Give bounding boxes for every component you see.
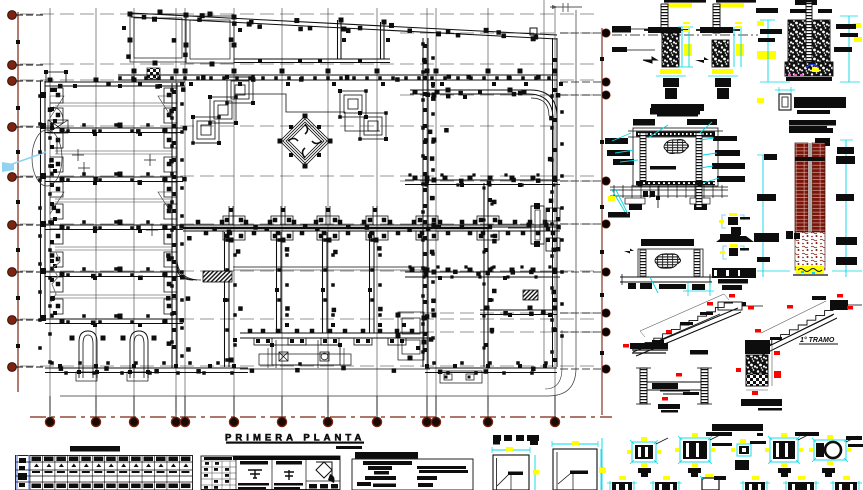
wall central band y=228 [183,216,560,240]
corridor curve [177,258,201,280]
wall notch upper right [546,208,560,221]
column section 1 [627,437,668,477]
table footing schedule [201,456,340,490]
footing detail 1 [612,0,706,117]
room top-right frame [410,28,557,180]
stair section left [630,294,763,356]
graph detail right [552,441,605,490]
wall notch lower right [546,238,560,251]
svg-text:1° TRAMO: 1° TRAMO [800,336,835,344]
footing detail 3 large [756,0,862,82]
dimension line left of sections [599,438,606,490]
grid axis line right (red) [601,28,603,415]
brick wall detail [754,126,862,277]
wall central south y=335 [240,329,428,345]
wall fin interior [508,203,549,247]
room upper-left B [186,12,242,67]
checker door block [147,68,160,79]
column section 4 [765,432,819,477]
stair U-shape left [70,331,106,381]
wall left exterior [40,81,57,321]
column labels block [712,268,756,290]
grid bubbles bottom [45,396,559,427]
wall bottom right section [425,364,557,373]
arc door left wall [32,130,62,186]
measure crosses [51,142,158,236]
beam connection detail [636,368,712,413]
stair left red marks [623,294,754,348]
nested-square spiral cluster right [338,89,388,141]
stair foundation detail [736,340,782,411]
survey mark top [550,3,582,12]
cluster bathroom walls [396,312,427,361]
grid bubbles left [8,11,44,372]
wall horizontal y=180 right [405,176,560,188]
porch stub [44,70,68,82]
wall top band extension [234,18,390,64]
room hatch block [523,290,538,300]
notes block [352,452,473,490]
stirrup mini detail B [720,234,749,259]
wall bottom left wing [45,364,248,373]
door X brace [48,120,68,133]
wall corridor vertical x=180 [172,83,177,368]
junction blocks [48,15,561,374]
tank detail frame [605,108,745,187]
room upper-left A [122,10,189,66]
stirrup mini detail A [716,213,754,242]
wall right exterior x=558 [553,38,558,367]
column section 5 [809,435,863,477]
nested-square spiral cluster left [191,75,255,145]
column sections row 2 [607,476,862,490]
stair U-shape right [121,331,157,381]
column section 2 [675,432,732,477]
wall horizontal upper y=75 [118,69,563,87]
table columns schedule [16,446,193,490]
grid line x=544 [543,0,545,368]
column sections title [712,424,763,436]
grid axis line left (red) [17,12,19,392]
wall top slanted [131,13,557,41]
pilaster bumps left wing [50,88,177,314]
walls left wing horizontal [45,123,183,328]
terrace boundary line [240,368,430,370]
footing detail 3 column stub [757,87,846,126]
wall horizontal y=312 [480,306,558,318]
break line squiggle [51,252,60,302]
courtyard boundary steps [235,94,380,131]
wall vertical x=430 center [423,38,437,367]
diamond column center [278,114,333,169]
stair right red marks [755,294,853,333]
stair right label text [799,336,838,344]
door swing triangles left wing [50,96,172,214]
wall top left wing y=83 [45,78,185,89]
wall vertical x=490 [484,183,492,367]
porch entry detail [259,340,351,368]
graph detail left [492,447,539,490]
walls vertical partitions lower-middle [223,232,382,367]
entry detail bottom [440,371,482,383]
door arc small [53,107,63,121]
wall tick sprinkles [38,42,564,375]
grid bubbles right [560,29,610,373]
grid axis line bottom (red) [30,416,612,418]
wall stubs above band [229,206,377,225]
column section 3 [731,439,766,470]
tank detail base [608,185,728,218]
wall footing detail frame [620,239,714,296]
column section row 2 open stirrup [700,474,726,490]
grid horizontal lines [20,14,598,366]
wall horizontal y=272 right [405,268,560,281]
stair section right [757,296,862,356]
datum dash line details [612,34,758,36]
footing detail 2 [695,0,756,99]
title PRIMERA PLANTA [225,433,364,450]
beam line y=268 rooms [233,267,427,270]
leader arrow light blue [2,152,46,172]
hatch block corridor [203,271,232,282]
grid vertical lines [50,8,555,414]
boundary line rounded corner [60,10,576,396]
beam lines left wing rooms [55,103,172,298]
legend bars [493,435,539,445]
